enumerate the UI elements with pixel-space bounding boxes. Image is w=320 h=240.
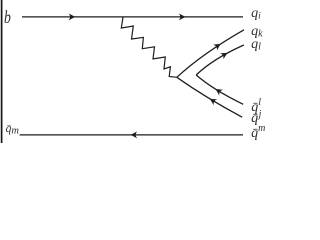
arrow on b line (right, before q_i) xyxy=(179,13,186,20)
arrow on qbar^l line (toward vertex) xyxy=(215,89,223,96)
fermion line vertex P1 to q_k xyxy=(177,30,244,78)
label b (incoming quark) xyxy=(4,8,11,26)
fermion line b to q_i (top horizontal) xyxy=(22,16,243,18)
fermion line vertex P2 to q_l xyxy=(196,45,244,75)
label q_i xyxy=(251,7,261,22)
fermion line vertex P2 to qbar^l xyxy=(196,75,243,104)
fermion line qbar_m (bottom horizontal) xyxy=(20,134,243,136)
label qbar^l xyxy=(251,98,261,115)
fermion line vertex P1 to qbar^j xyxy=(177,77,242,117)
arrow on q_l line xyxy=(220,53,228,59)
label q_l xyxy=(251,38,261,53)
boson zigzag from b line down to vertex P1 xyxy=(121,17,177,77)
label qbar^j xyxy=(251,110,261,126)
label qbar^m xyxy=(251,124,265,141)
label q_k xyxy=(251,25,262,40)
label qbar_m (bottom left) xyxy=(6,124,19,137)
arrow on qbar^j line (toward vertex) xyxy=(210,99,218,106)
arrow on b line (left) xyxy=(69,13,76,20)
arrow on q_k line xyxy=(213,44,221,51)
arrow on qbar_m line (pointing left) xyxy=(130,131,137,138)
left frame border xyxy=(1,0,3,143)
